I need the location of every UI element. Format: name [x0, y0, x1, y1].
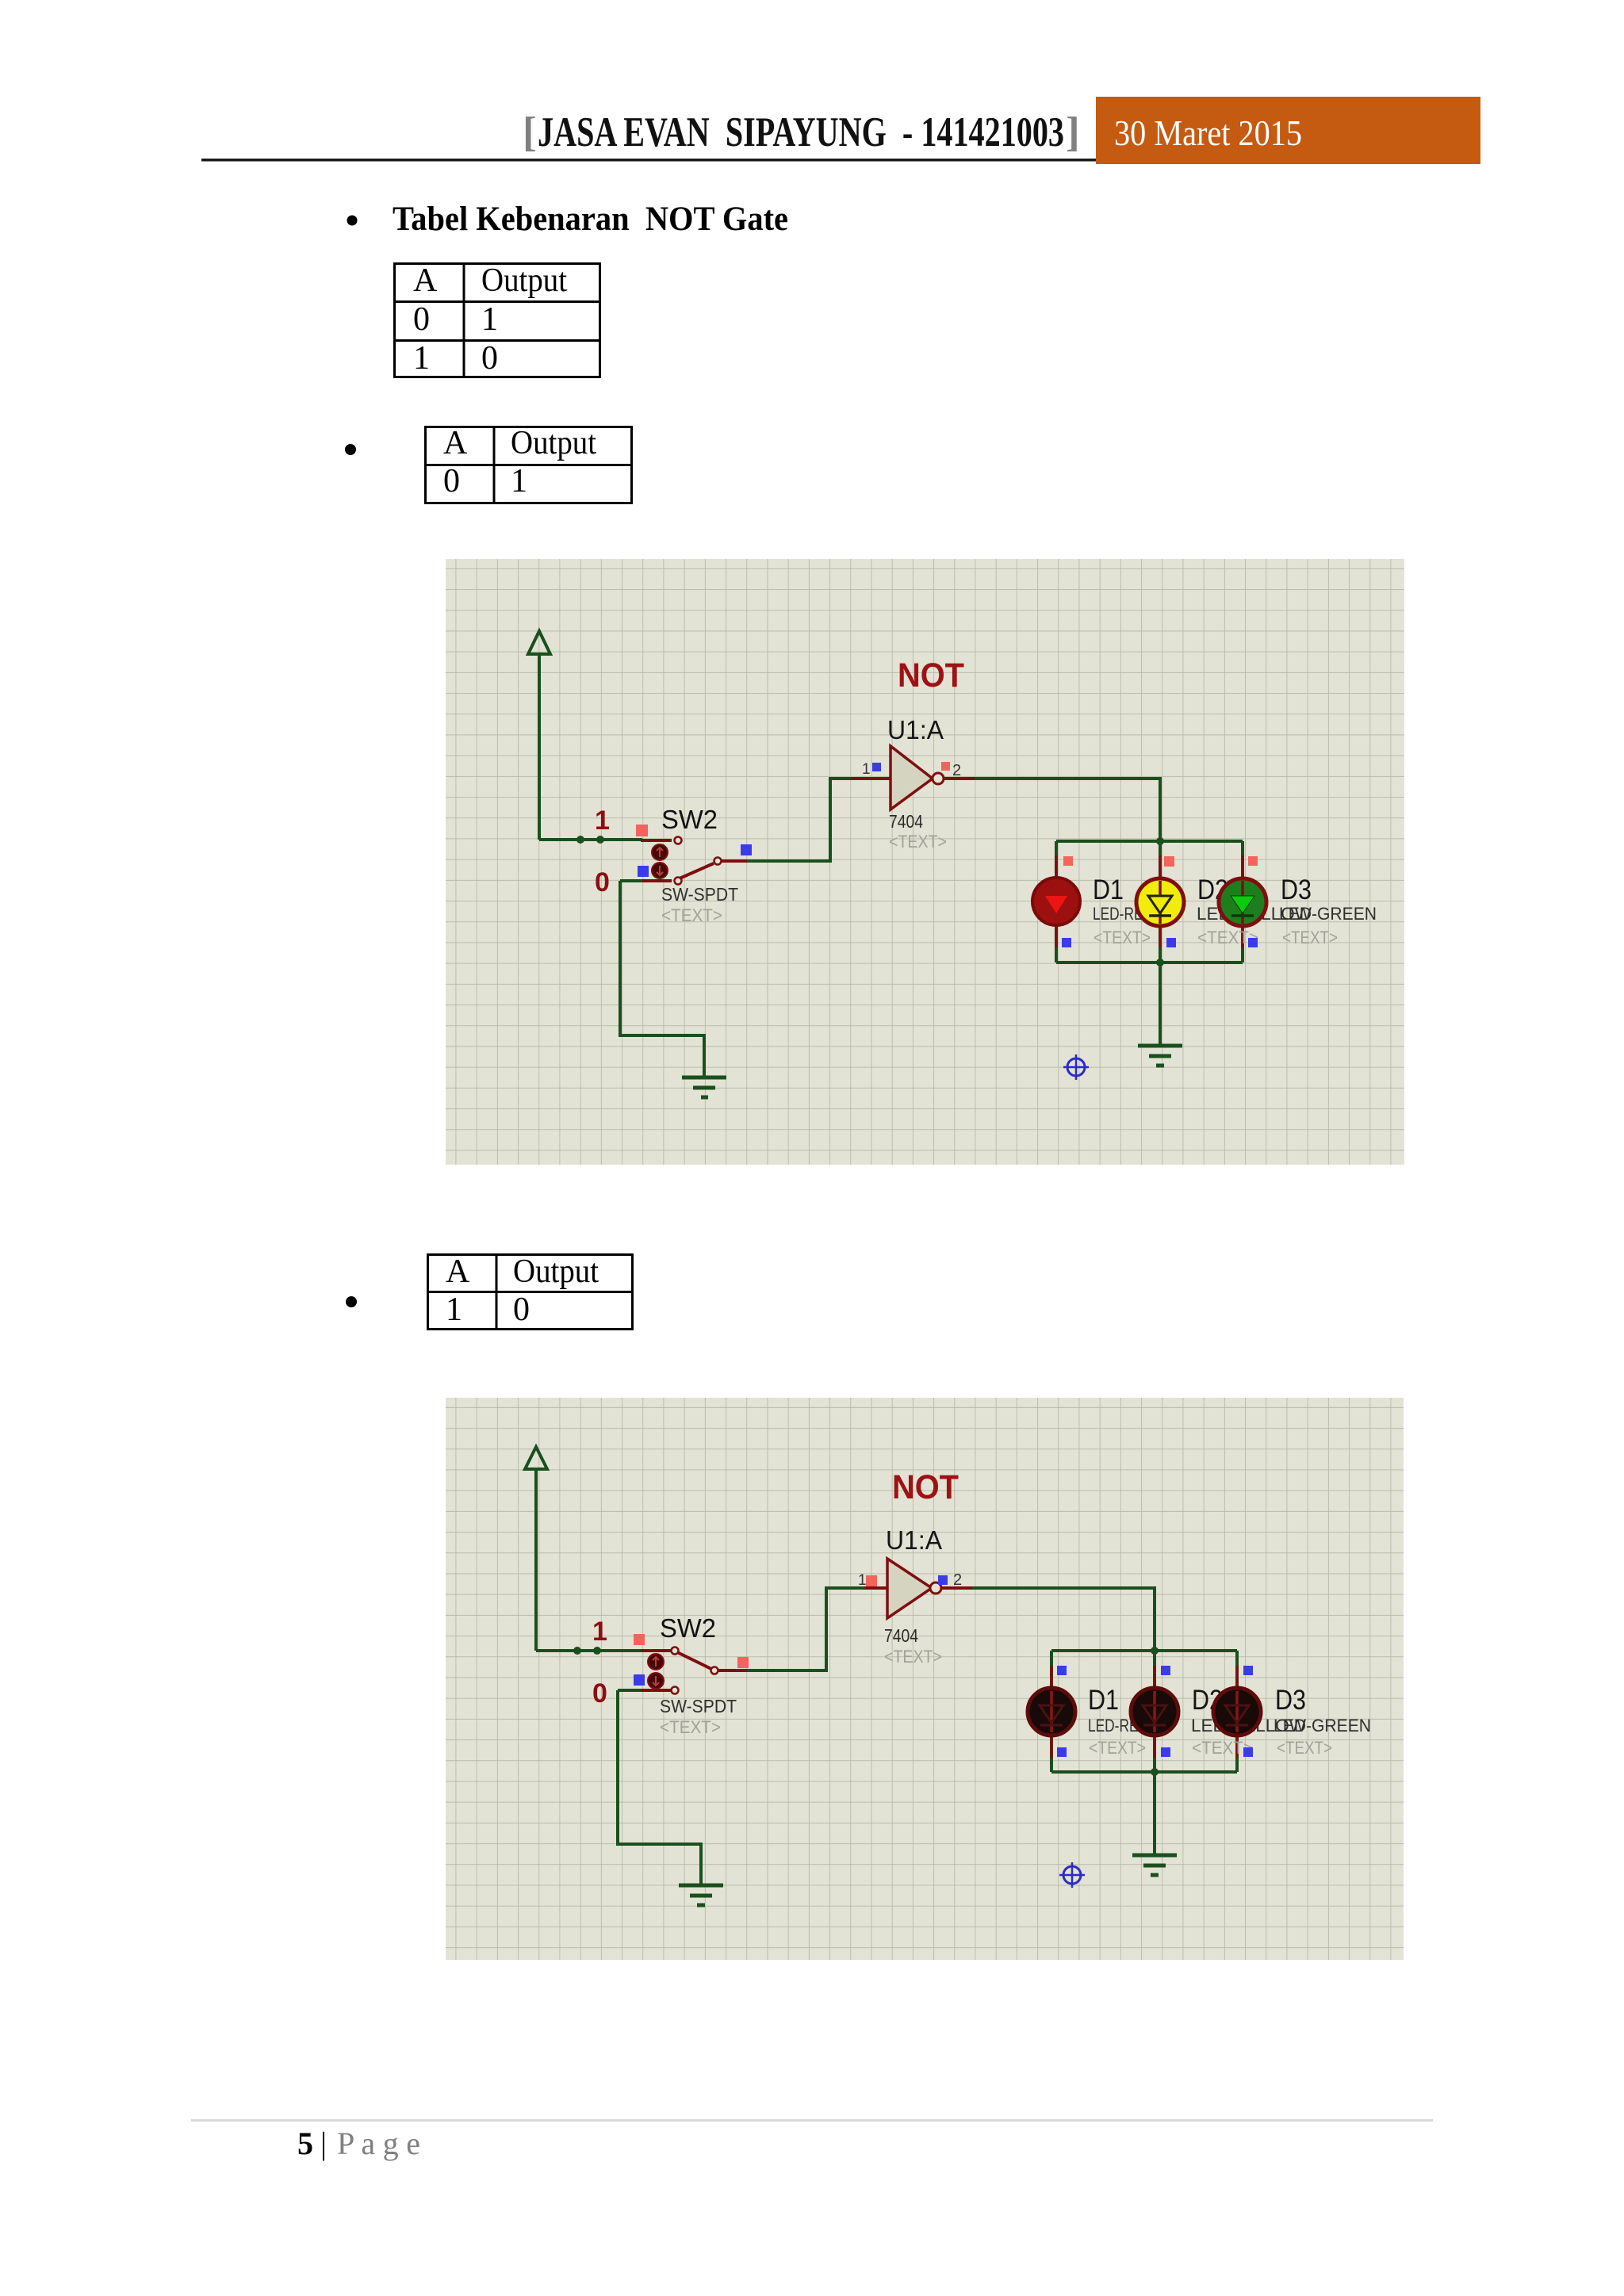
svg-text:NOT: NOT: [898, 656, 964, 695]
svg-text:U1:A: U1:A: [887, 715, 944, 744]
svg-text:1: 1: [413, 340, 430, 377]
svg-text:D3: D3: [1281, 874, 1312, 905]
svg-text:LED-GREEN: LED-GREEN: [1274, 1716, 1371, 1735]
svg-text:SW2: SW2: [660, 1613, 716, 1643]
svg-text:]: ]: [1066, 109, 1080, 155]
svg-text:SW2: SW2: [661, 805, 718, 834]
svg-text:1: 1: [511, 463, 527, 499]
svg-text:1: 1: [595, 806, 610, 836]
svg-text:<TEXT>: <TEXT>: [660, 1717, 721, 1737]
svg-text:<TEXT>: <TEXT>: [1089, 1738, 1146, 1758]
svg-text:1: 1: [481, 301, 498, 338]
svg-text:Output: Output: [481, 262, 567, 299]
svg-text:2: 2: [952, 762, 961, 779]
svg-text:<TEXT>: <TEXT>: [889, 832, 947, 851]
svg-text:5: 5: [297, 2126, 313, 2161]
svg-text:0: 0: [481, 340, 498, 377]
svg-text:A: A: [413, 262, 438, 299]
svg-text:7404: 7404: [884, 1625, 918, 1646]
svg-text:JASA EVAN SIPAYUNG - 1414210: JASA EVAN SIPAYUNG - 141421003: [538, 109, 1064, 155]
svg-text:U1:A: U1:A: [886, 1525, 942, 1555]
svg-text:SW-SPDT: SW-SPDT: [661, 884, 738, 905]
svg-text:LED-GREEN: LED-GREEN: [1279, 904, 1377, 924]
svg-text:Output: Output: [511, 425, 596, 461]
svg-text:NOT: NOT: [892, 1468, 959, 1506]
svg-text:7404: 7404: [889, 811, 923, 832]
svg-text:1: 1: [858, 1572, 867, 1589]
svg-text:30 Maret 2015: 30 Maret 2015: [1114, 113, 1302, 153]
svg-text:|: |: [320, 2126, 327, 2161]
svg-text:P a g e: P a g e: [337, 2126, 420, 2161]
svg-text:0: 0: [443, 463, 460, 499]
svg-text:1: 1: [592, 1617, 607, 1647]
svg-text:A: A: [446, 1253, 470, 1290]
svg-text:0: 0: [513, 1291, 530, 1328]
svg-text:SW-SPDT: SW-SPDT: [660, 1696, 737, 1716]
svg-text:0: 0: [595, 867, 610, 897]
svg-text:D1: D1: [1088, 1685, 1119, 1716]
svg-text:2: 2: [953, 1571, 962, 1589]
svg-text:<TEXT>: <TEXT>: [1094, 928, 1151, 947]
svg-text:[: [: [523, 109, 537, 155]
svg-text:1: 1: [862, 761, 871, 778]
svg-text:0: 0: [413, 301, 430, 338]
svg-text:0: 0: [592, 1678, 607, 1709]
svg-text:D1: D1: [1093, 874, 1124, 905]
svg-text:<TEXT>: <TEXT>: [884, 1647, 942, 1667]
svg-text:1: 1: [446, 1291, 462, 1328]
svg-text:A: A: [443, 425, 468, 461]
svg-text:D3: D3: [1275, 1685, 1306, 1716]
svg-text:<TEXT>: <TEXT>: [661, 905, 722, 925]
svg-text:Output: Output: [513, 1253, 599, 1290]
svg-text:<TEXT>: <TEXT>: [1277, 1738, 1332, 1758]
svg-text:<TEXT>: <TEXT>: [1282, 928, 1338, 947]
svg-text:Tabel Kebenaran NOT Gate: Tabel Kebenaran NOT Gate: [393, 201, 788, 238]
